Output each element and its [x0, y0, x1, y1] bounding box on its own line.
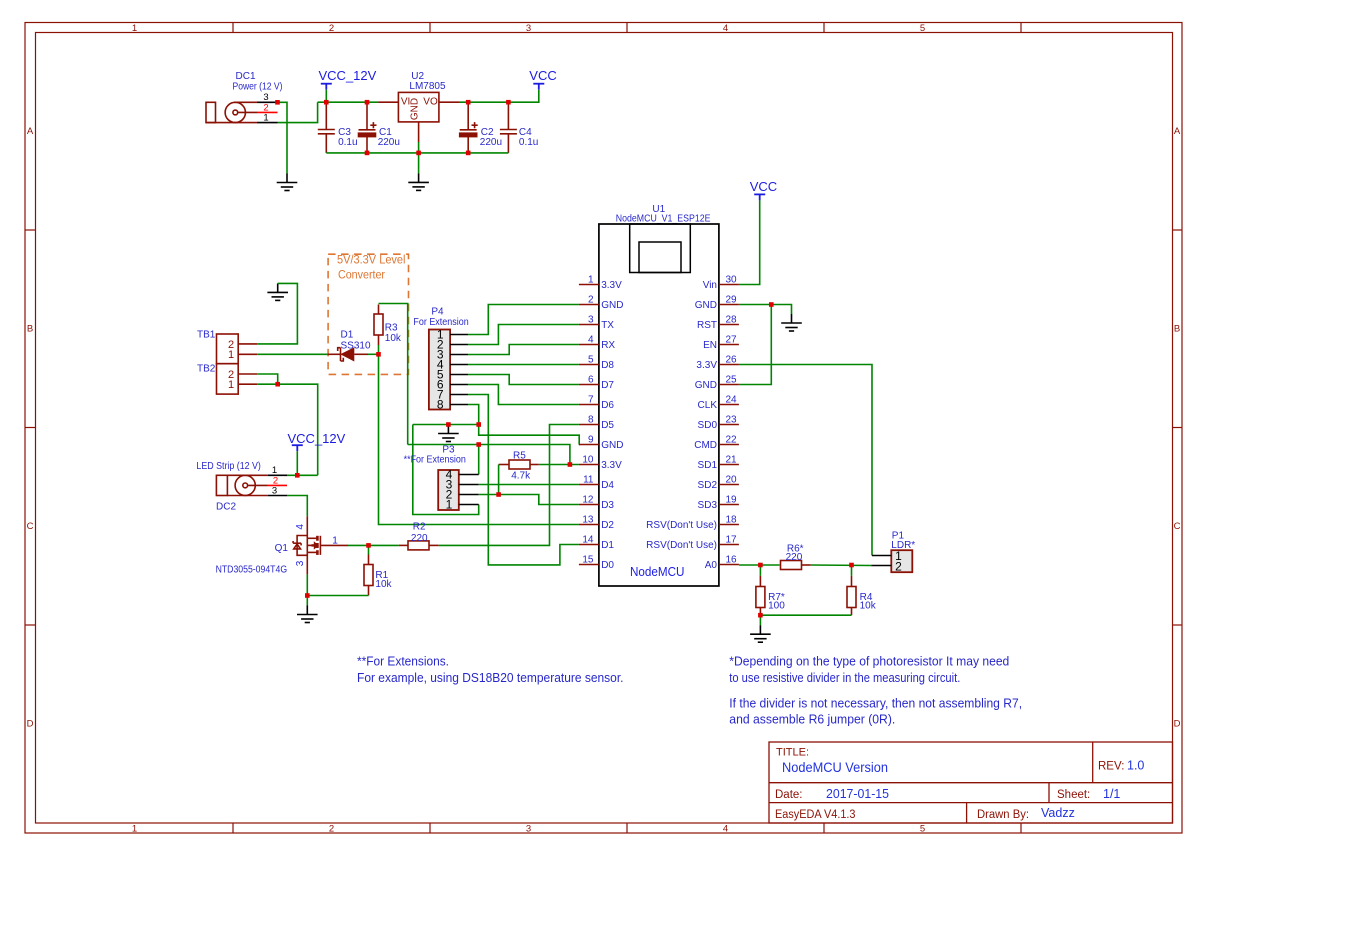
ground below Q1: [297, 606, 318, 623]
svg-text:and assemble R6 jumper (0R).: and assemble R6 jumper (0R).: [729, 712, 895, 726]
wire Q1 gate to R1/R2 node: [348, 544, 369, 546]
U1 pin 19 stub: [719, 504, 739, 506]
svg-text:If the divider is not necessar: If the divider is not necessary, then no…: [729, 696, 1022, 710]
wire P4 pin1 to U1 GND pin2: [468, 305, 579, 335]
junction GND pin29: [769, 302, 774, 307]
U1 pin 15 stub: [579, 564, 599, 566]
P3 pin 3 stub: [459, 484, 479, 486]
wire R7 bottom to R4 bottom: [760, 614, 851, 616]
svg-text:D1: D1: [601, 540, 614, 551]
wire divider to ground: [759, 615, 761, 625]
U1 pin 25 stub: [719, 384, 739, 386]
ground below DC1: [277, 174, 298, 191]
border column numbers top: [132, 23, 925, 34]
wire bottom rail to ground: [418, 153, 420, 174]
U1 pin 8 stub: [579, 424, 599, 426]
sheet border outer frame: [25, 23, 1182, 834]
connector P1 body: [891, 550, 912, 572]
junction C1 top: [365, 100, 370, 105]
P4 pin 1 stub: [450, 334, 468, 336]
junction C2 top: [466, 100, 471, 105]
svg-text:1: 1: [132, 23, 137, 34]
U2 VO pin lead: [439, 101, 460, 103]
svg-text:19: 19: [726, 495, 738, 506]
TB2 pin 2 stub: [238, 373, 257, 375]
wire gate node down: [368, 545, 370, 554]
svg-text:Power (12 V): Power (12 V): [233, 82, 283, 93]
svg-text:SD1: SD1: [698, 460, 718, 471]
svg-text:RSV(Don't Use): RSV(Don't Use): [646, 520, 717, 531]
wire R4 top: [851, 565, 853, 576]
connector DC2 barrel jack body: [216, 475, 268, 495]
U1 pin 11 stub: [579, 484, 599, 486]
svg-text:22: 22: [726, 435, 738, 446]
R1 top lead: [368, 555, 370, 565]
wire P3 pin3 to U1 D4 pin11: [479, 484, 579, 486]
wire P4 pin3 to U1 RX pin4: [468, 345, 579, 355]
U1 pin 29 stub: [719, 304, 739, 306]
svg-text:B: B: [1174, 324, 1180, 335]
connector TB1 body: [217, 334, 239, 364]
power flag VCC: [533, 84, 544, 90]
U1 pin 14 stub: [579, 544, 599, 546]
connector TB2 body: [217, 364, 239, 394]
wire TB2 pin2 to pin1: [257, 374, 278, 384]
svg-text:0.1u: 0.1u: [519, 137, 538, 148]
connector P3 body: [438, 470, 459, 510]
wire P4 pin8 to GND and U1 GND pin9: [468, 405, 579, 445]
wire pin10 3.3V segment: [539, 464, 579, 466]
title block REV column divider: [1092, 742, 1094, 783]
svg-text:15: 15: [582, 555, 594, 566]
svg-text:RST: RST: [697, 320, 717, 331]
svg-text:27: 27: [726, 335, 738, 346]
wire VCC rail right of U2: [460, 90, 539, 103]
R7 top lead: [759, 576, 761, 587]
P3 pin 1 stub: [459, 504, 479, 506]
U1 pin 13 stub: [579, 524, 599, 526]
resistor R3: [374, 314, 383, 335]
svg-text:DC2: DC2: [216, 502, 236, 513]
svg-text:5: 5: [588, 355, 594, 366]
junction TB2 pins joined: [275, 382, 280, 387]
U1 pin 30 stub: [719, 284, 739, 286]
svg-text:GND: GND: [410, 98, 421, 120]
svg-text:EasyEDA V4.1.3: EasyEDA V4.1.3: [775, 809, 856, 821]
wire P4 pin2 to U1 TX pin3: [468, 325, 579, 345]
R3 bottom lead: [378, 335, 380, 345]
title block Sheet column divider: [1048, 783, 1050, 803]
svg-text:D0: D0: [601, 560, 614, 571]
svg-text:VCC: VCC: [529, 68, 556, 83]
capacitor C1 (polarized): [359, 102, 377, 153]
junction P4 pin8 / GND: [476, 422, 481, 427]
svg-text:D5: D5: [601, 420, 614, 431]
svg-text:NodeMCU: NodeMCU: [630, 565, 685, 579]
R5 right lead: [530, 464, 539, 466]
svg-text:29: 29: [726, 295, 738, 306]
connector P4 body: [429, 330, 450, 410]
P1 pin 1 stub: [872, 555, 891, 557]
svg-text:220u: 220u: [480, 137, 502, 148]
TB1 pin 1 stub: [238, 353, 257, 355]
U1 pin 6 stub: [579, 384, 599, 386]
border column numbers bottom: [132, 824, 925, 835]
wire VCC_12V rail left segment: [318, 101, 379, 103]
R5 left lead and wire down: [499, 464, 510, 466]
svg-text:6: 6: [588, 375, 594, 386]
wire U1 A0 pin16 to R6: [739, 564, 780, 566]
svg-text:*Depending on the type of phot: *Depending on the type of photoresistor …: [729, 655, 1009, 669]
svg-text:D2: D2: [601, 520, 614, 531]
wire P4 pin5 to U1 D7 pin6: [468, 375, 579, 385]
junction 3.3V at pin10: [568, 462, 573, 467]
svg-text:3: 3: [588, 315, 594, 326]
svg-text:Vadzz: Vadzz: [1041, 806, 1075, 820]
svg-text:1: 1: [588, 275, 594, 286]
wire VCC to U1 Vin pin30: [739, 200, 760, 284]
svg-text:5V/3.3V Level: 5V/3.3V Level: [337, 255, 406, 267]
junction C2 bottom: [466, 151, 471, 156]
svg-text:NodeMCU_V1_ESP12E: NodeMCU_V1_ESP12E: [616, 213, 711, 224]
svg-text:Converter: Converter: [338, 270, 385, 282]
svg-text:Q1: Q1: [275, 543, 289, 554]
svg-text:D3: D3: [601, 500, 614, 511]
svg-text:16: 16: [726, 555, 738, 566]
svg-text:1/1: 1/1: [1103, 787, 1120, 801]
DC2 pin 2 stub (unconnected): [268, 484, 287, 486]
svg-text:8: 8: [588, 415, 594, 426]
junction Q1 source / R1: [305, 593, 310, 598]
svg-text:8: 8: [437, 398, 444, 412]
R3 top lead: [378, 305, 380, 315]
junction ground tap: [446, 422, 451, 427]
junction gate node: [366, 543, 371, 548]
svg-text:220: 220: [786, 552, 803, 563]
svg-text:26: 26: [726, 355, 738, 366]
svg-text:0.1u: 0.1u: [338, 137, 357, 148]
svg-text:10k: 10k: [375, 579, 392, 590]
wire U2 GND to bottom rail: [418, 142, 420, 153]
DC1 pin 1 stub: [257, 122, 278, 124]
junction 3.3V / P3 pin4: [476, 442, 481, 447]
svg-text:Vin: Vin: [703, 280, 717, 291]
U1 pin 5 stub: [579, 364, 599, 366]
svg-text:4: 4: [723, 23, 728, 34]
junction C4 top: [506, 100, 511, 105]
svg-text:3: 3: [526, 824, 531, 835]
svg-text:D7: D7: [601, 380, 614, 391]
title block outline: [769, 742, 1173, 823]
P3 pin 4 stub: [459, 474, 479, 476]
U1 antenna notch inner: [639, 242, 681, 273]
border row letters left: [27, 126, 34, 730]
svg-text:VCC_12V: VCC_12V: [288, 431, 346, 446]
svg-text:12: 12: [582, 495, 594, 506]
resistor R1: [364, 565, 373, 586]
wire P3 pin1 loop to GND: [413, 425, 479, 515]
svg-text:5: 5: [920, 824, 925, 835]
U1 pin 21 stub: [719, 464, 739, 466]
svg-text:to use resistive divider in th: to use resistive divider in the measurin…: [729, 671, 960, 685]
svg-text:For Extension: For Extension: [413, 317, 468, 328]
svg-text:4: 4: [723, 824, 728, 835]
ground right of U1: [781, 314, 802, 331]
U1 antenna notch outer: [630, 224, 691, 273]
Q1 source lead: [306, 552, 308, 574]
U1 pin 3 stub: [579, 324, 599, 326]
svg-text:VO: VO: [423, 97, 438, 108]
wire TB1 pin1 to D1 anode side: [257, 353, 328, 355]
svg-text:NodeMCU Version: NodeMCU Version: [782, 759, 888, 775]
svg-text:A: A: [1174, 126, 1181, 137]
DC2 pin 3 stub: [268, 495, 287, 497]
TB2 pin 1 stub: [238, 383, 257, 385]
connector DC1 barrel jack body: [206, 102, 257, 122]
svg-text:30: 30: [726, 275, 738, 286]
Q1 gate lead: [320, 544, 348, 546]
P4 pin 4 stub: [450, 364, 468, 366]
power flag VCC (right): [754, 194, 765, 200]
U1 pin 18 stub: [719, 524, 739, 526]
R2 left lead: [399, 544, 408, 546]
svg-text:3: 3: [526, 23, 531, 34]
R6 right lead: [802, 564, 811, 566]
wire D1 node down to D2 line: [379, 354, 579, 524]
svg-text:NTD3055-094T4G: NTD3055-094T4G: [216, 565, 288, 576]
U1 pin 2 stub: [579, 304, 599, 306]
P4 pin 3 stub: [450, 354, 468, 356]
svg-text:A0: A0: [705, 560, 718, 571]
junction VCC_12V tap / C3 top: [324, 100, 329, 105]
resistor R6: [781, 561, 802, 570]
wire TB1 pin2 to ground: [257, 283, 297, 344]
wire DC1 pin3 to ground: [278, 102, 288, 173]
U1 pin 7 stub: [579, 404, 599, 406]
svg-text:1: 1: [228, 349, 234, 361]
svg-text:4: 4: [295, 524, 306, 530]
svg-text:C: C: [27, 521, 34, 532]
wire P4 pin7 to U1 D1 pin14: [468, 395, 579, 565]
svg-text:EN: EN: [703, 340, 717, 351]
svg-text:18: 18: [726, 515, 738, 526]
power flag VCC_12V (LED): [292, 445, 303, 451]
capacitor C2 (polarized): [460, 102, 478, 153]
svg-text:Date:: Date:: [775, 789, 803, 801]
svg-text:1: 1: [132, 824, 137, 835]
capacitor C4: [500, 102, 517, 153]
level converter dashed box: [328, 254, 408, 374]
svg-text:2: 2: [329, 824, 334, 835]
svg-text:For example, using DS18B20 tem: For example, using DS18B20 temperature s…: [357, 671, 624, 685]
svg-text:RSV(Don't Use): RSV(Don't Use): [646, 540, 717, 551]
svg-text:10k: 10k: [385, 333, 402, 344]
border row letters right: [1174, 126, 1181, 730]
svg-text:TB2: TB2: [197, 363, 216, 374]
P4 pin 7 stub: [450, 394, 468, 396]
U1 pin 20 stub: [719, 484, 739, 486]
junction R6 / R4: [849, 563, 854, 568]
svg-text:3: 3: [272, 485, 277, 496]
svg-text:20: 20: [726, 475, 738, 486]
svg-text:17: 17: [726, 535, 738, 546]
resistor R5: [509, 460, 530, 469]
U1 pin 4 stub: [579, 344, 599, 346]
svg-text:1: 1: [228, 379, 234, 391]
U1 pin 26 stub: [719, 364, 739, 366]
U1 pin 10 stub: [579, 464, 599, 466]
resistor R7: [756, 587, 765, 608]
junction VCC_12V at DC2 pin1: [295, 473, 300, 478]
svg-text:LED Strip (12 V): LED Strip (12 V): [196, 461, 261, 472]
svg-text:TX: TX: [601, 320, 614, 331]
svg-text:R3: R3: [385, 323, 398, 334]
svg-text:100: 100: [768, 600, 785, 611]
wire power section bottom rail: [326, 152, 508, 154]
U1 pin 22 stub: [719, 444, 739, 446]
U1 pin 1 stub: [579, 284, 599, 286]
sheet border inner frame: [36, 33, 1173, 824]
wire Q1 source to ground: [306, 574, 308, 605]
wire R1 bottom to Q1 source: [307, 595, 368, 597]
power flag VCC_12V: [321, 84, 332, 90]
wire DC2 pin1 line: [287, 474, 318, 476]
svg-text:Sheet:: Sheet:: [1057, 789, 1090, 801]
svg-text:3.3V: 3.3V: [601, 460, 622, 471]
svg-text:GND: GND: [601, 440, 623, 451]
svg-text:3.3V: 3.3V: [601, 280, 622, 291]
P4 pin 2 stub: [450, 344, 468, 346]
svg-text:DC1: DC1: [236, 71, 256, 82]
svg-text:**For Extension: **For Extension: [404, 455, 466, 466]
svg-text:TITLE:: TITLE:: [776, 746, 809, 758]
wire DC2 pin3 to Q1 drain: [287, 496, 307, 517]
wire P3 pin2 to U1 D3 pin12: [479, 495, 579, 505]
svg-text:3: 3: [295, 560, 306, 566]
ground near P3: [438, 425, 459, 442]
svg-text:VCC: VCC: [750, 179, 777, 194]
junction C1 bottom: [365, 151, 370, 156]
svg-text:24: 24: [726, 395, 738, 406]
svg-text:A: A: [27, 126, 34, 137]
diode D1 (schottky SS310): [328, 348, 368, 361]
DC2 pin 1 stub: [268, 474, 287, 476]
U1 pin 27 stub: [719, 344, 739, 346]
svg-text:2017-01-15: 2017-01-15: [826, 787, 889, 801]
svg-text:VCC_12V: VCC_12V: [319, 68, 377, 83]
svg-text:D: D: [27, 719, 34, 730]
wire P4 pin6 to U1 D6 pin7: [468, 385, 579, 405]
svg-text:220u: 220u: [378, 137, 400, 148]
svg-text:1.0: 1.0: [1127, 759, 1144, 773]
P3 pin 2 stub: [459, 494, 479, 496]
svg-text:SD0: SD0: [698, 420, 718, 431]
wire U1 3.3V pin26 to P1 pin1: [739, 365, 872, 556]
svg-text:5: 5: [920, 23, 925, 34]
wire GND spur to ground symbol: [413, 424, 479, 426]
svg-text:B: B: [27, 324, 33, 335]
svg-text:7: 7: [588, 395, 594, 406]
wire R7 top: [759, 565, 761, 576]
wire 3.3V down to P3 pin4: [478, 445, 480, 475]
R1 bottom lead: [368, 586, 370, 596]
svg-text:9: 9: [588, 435, 594, 446]
wire R2 to U1 D5 pin8: [439, 425, 579, 546]
R4 top lead: [851, 576, 853, 587]
border column ticks bottom: [233, 823, 1021, 833]
capacitor C3: [318, 102, 335, 153]
wire gate node to R2: [369, 544, 399, 546]
DC1 pin 2 stub (unconnected): [257, 111, 278, 113]
wire R6 to P1 pin2: [811, 564, 872, 567]
svg-text:P4: P4: [431, 306, 444, 317]
R4 bottom lead: [851, 608, 853, 616]
svg-text:25: 25: [726, 375, 738, 386]
svg-text:D8: D8: [601, 360, 614, 371]
border row ticks right: [1173, 230, 1183, 625]
junction R7 bottom: [758, 613, 763, 618]
svg-text:SD2: SD2: [698, 480, 718, 491]
U1 pin 17 stub: [719, 544, 739, 546]
wire VCC_12V flag stem to DC2 pin1: [296, 451, 298, 475]
wire TB2 pin1 to DC2 pin1 (12V): [257, 384, 318, 475]
svg-text:2: 2: [895, 559, 902, 573]
svg-text:4.7k: 4.7k: [511, 470, 531, 481]
svg-text:C: C: [1174, 521, 1181, 532]
svg-text:D4: D4: [601, 480, 614, 491]
svg-text:TB1: TB1: [197, 330, 216, 341]
svg-text:D6: D6: [601, 400, 614, 411]
svg-text:Drawn By:: Drawn By:: [977, 809, 1029, 821]
svg-text:1: 1: [263, 113, 268, 124]
TB1 pin 2 stub: [238, 343, 257, 345]
svg-text:GND: GND: [601, 300, 623, 311]
wire D1 cathode to junction: [368, 353, 379, 355]
title block row divider 1: [769, 782, 1173, 784]
ground below divider: [750, 625, 771, 642]
svg-text:23: 23: [726, 415, 738, 426]
title block DrawnBy column divider: [966, 803, 968, 823]
svg-text:GND: GND: [695, 300, 717, 311]
wire R3 bottom to D1 node: [378, 345, 380, 354]
Q1 drain lead: [306, 516, 308, 538]
svg-text:10: 10: [582, 455, 594, 466]
svg-text:R2: R2: [413, 521, 426, 532]
P4 pin 8 stub: [450, 404, 468, 406]
svg-text:14: 14: [582, 535, 594, 546]
junction at DC1 pin 3: [275, 100, 280, 105]
svg-text:RX: RX: [601, 340, 615, 351]
junction GND rail center: [416, 151, 421, 156]
DC1 pin 3 stub: [257, 101, 278, 103]
P4 pin 5 stub: [450, 374, 468, 376]
voltage regulator U2 body: [398, 92, 439, 122]
U1 pin 16 stub: [719, 564, 739, 566]
U1 pin 12 stub: [579, 504, 599, 506]
svg-text:LM7805: LM7805: [409, 81, 446, 92]
wire R3 top to 3.3V line: [379, 304, 408, 445]
svg-text:D1: D1: [341, 329, 354, 340]
title block row divider 2: [769, 802, 1173, 804]
border row ticks left: [25, 230, 36, 625]
ground above TB1: [267, 283, 288, 300]
svg-text:13: 13: [582, 515, 594, 526]
svg-text:10k: 10k: [860, 600, 877, 611]
svg-text:D: D: [1174, 719, 1181, 730]
svg-text:1: 1: [446, 498, 453, 512]
junction A0 / R7: [758, 563, 763, 568]
R2 right lead: [429, 544, 439, 546]
